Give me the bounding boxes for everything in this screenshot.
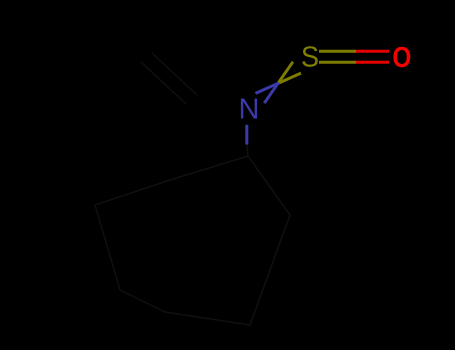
bond S=O upper line sulfur half (olive) [319, 50, 356, 53]
bond C1-N nitrogen half (blue) [245, 125, 248, 145]
svg-text:N: N [239, 93, 260, 125]
bond N=S crossed line B blue half [264, 82, 278, 103]
ring (carbocycle, near-black) [95, 156, 290, 325]
bond N=S crossed line B olive half [279, 62, 293, 83]
svg-text:S: S [301, 41, 319, 73]
bond N=S crossed line A blue half [255, 83, 278, 93]
bond C1-N carbon half (dark) [247, 145, 248, 157]
bond S=O upper line oxygen half (red) [356, 50, 389, 53]
double bond stub upper-left line 1 [141, 62, 186, 104]
double bond stub upper-left line 2 [152, 53, 197, 95]
bond N=S crossed line A olive half [278, 73, 301, 83]
bond S=O lower line oxygen half (red) [356, 61, 389, 64]
svg-text:O: O [392, 41, 411, 73]
bond S=O lower line sulfur half (olive) [319, 61, 356, 64]
